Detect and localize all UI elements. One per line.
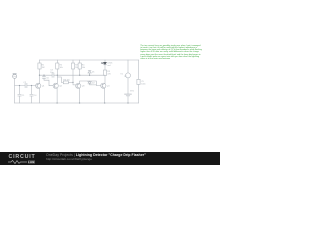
resistor R5: [103, 65, 106, 83]
transistor Q1: [36, 83, 41, 103]
svg-text:10k: 10k: [60, 67, 63, 69]
CircuitLab wordmark: [9, 154, 36, 160]
footer bar: [0, 152, 220, 165]
node dot B: [43, 75, 44, 76]
svg-text:470: 470: [107, 74, 111, 76]
node dot J: [56, 102, 57, 103]
transistor Q2: [53, 83, 58, 103]
node dot C: [57, 75, 58, 76]
LED D3: [101, 60, 106, 65]
node dot F: [19, 85, 20, 86]
node dot H: [72, 82, 73, 83]
svg-text:100n: 100n: [141, 83, 145, 85]
node dot E: [89, 75, 90, 76]
svg-text:1M: 1M: [42, 67, 45, 69]
capacitor C5 (right column): [137, 60, 140, 103]
capacitor C3 (series): [52, 73, 54, 77]
capacitor C6 (coupling to Q2 base): [42, 75, 53, 86]
svg-text:C6: C6: [46, 77, 49, 79]
resistor R1: [38, 60, 41, 84]
svg-text:1M: 1M: [75, 67, 78, 69]
svg-text:C4: C4: [34, 95, 37, 97]
transistor Q4: [101, 83, 106, 103]
svg-text:10n: 10n: [50, 72, 53, 74]
resistor R2: [56, 60, 59, 83]
capacitor C1 (shunt): [18, 86, 21, 104]
wire mid horizontal node: [40, 74, 106, 76]
wire Q3 collector run: [80, 81, 101, 86]
svg-text:BT1: BT1: [130, 91, 135, 93]
svg-text:D2: D2: [92, 82, 95, 84]
wire input node: [15, 85, 36, 87]
svg-text:R6 10k: R6 10k: [63, 79, 69, 81]
wire bottom ground rail: [15, 102, 139, 104]
diode D2: [88, 81, 96, 85]
resistor R6 (horizontal): [63, 81, 73, 84]
diode D1 (zener above mid wire): [88, 71, 91, 76]
svg-text:Q1: Q1: [42, 86, 46, 88]
svg-text:C2: C2: [23, 82, 26, 84]
node dot L: [104, 102, 105, 103]
svg-text:10k: 10k: [82, 67, 85, 69]
annotation green note text: [140, 45, 200, 47]
ammeter V1: [126, 60, 131, 94]
node dot I: [127, 102, 128, 103]
resistor R4: [78, 60, 81, 75]
capacitor C4 (shunt): [30, 86, 33, 104]
svg-text:Q4: Q4: [107, 86, 111, 88]
capacitor C2 (series input): [25, 83, 27, 87]
svg-text:D1: D1: [92, 72, 95, 74]
source V2 (antenna input): [13, 74, 17, 103]
footer url line: [46, 157, 92, 161]
logo LAB box: [28, 160, 36, 164]
node dot A: [39, 75, 40, 76]
footer title line: [46, 153, 146, 157]
wire top power rail: [40, 59, 139, 61]
battery B1: [125, 94, 132, 103]
svg-text:C1: C1: [22, 95, 25, 97]
node dot G: [31, 85, 32, 86]
wire Q2 collector to R6: [57, 77, 63, 82]
node dot K: [79, 102, 80, 103]
node dot D: [79, 75, 80, 76]
transistor Q3: [76, 83, 81, 103]
resistor R3: [71, 60, 75, 85]
schematic canvas: [0, 0, 220, 165]
svg-text:Q3: Q3: [82, 86, 86, 88]
svg-text:Q2: Q2: [59, 86, 63, 88]
logo waveform: [8, 160, 28, 164]
svg-text:red: red: [108, 65, 111, 67]
